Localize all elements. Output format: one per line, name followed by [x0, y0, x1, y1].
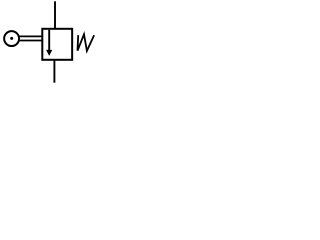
roller axle dot — [10, 37, 13, 40]
flow arrow stem — [48, 30, 50, 51]
valve body box — [42, 29, 72, 60]
plunger rod top line — [19, 35, 43, 37]
roller circle — [4, 31, 19, 46]
plunger rod bottom line — [18, 40, 43, 42]
top port wire — [54, 1, 56, 29]
flow arrow head — [46, 50, 52, 56]
bottom port wire — [53, 60, 55, 83]
valve schematic symbol — [0, 0, 96, 84]
spring W — [78, 34, 95, 51]
